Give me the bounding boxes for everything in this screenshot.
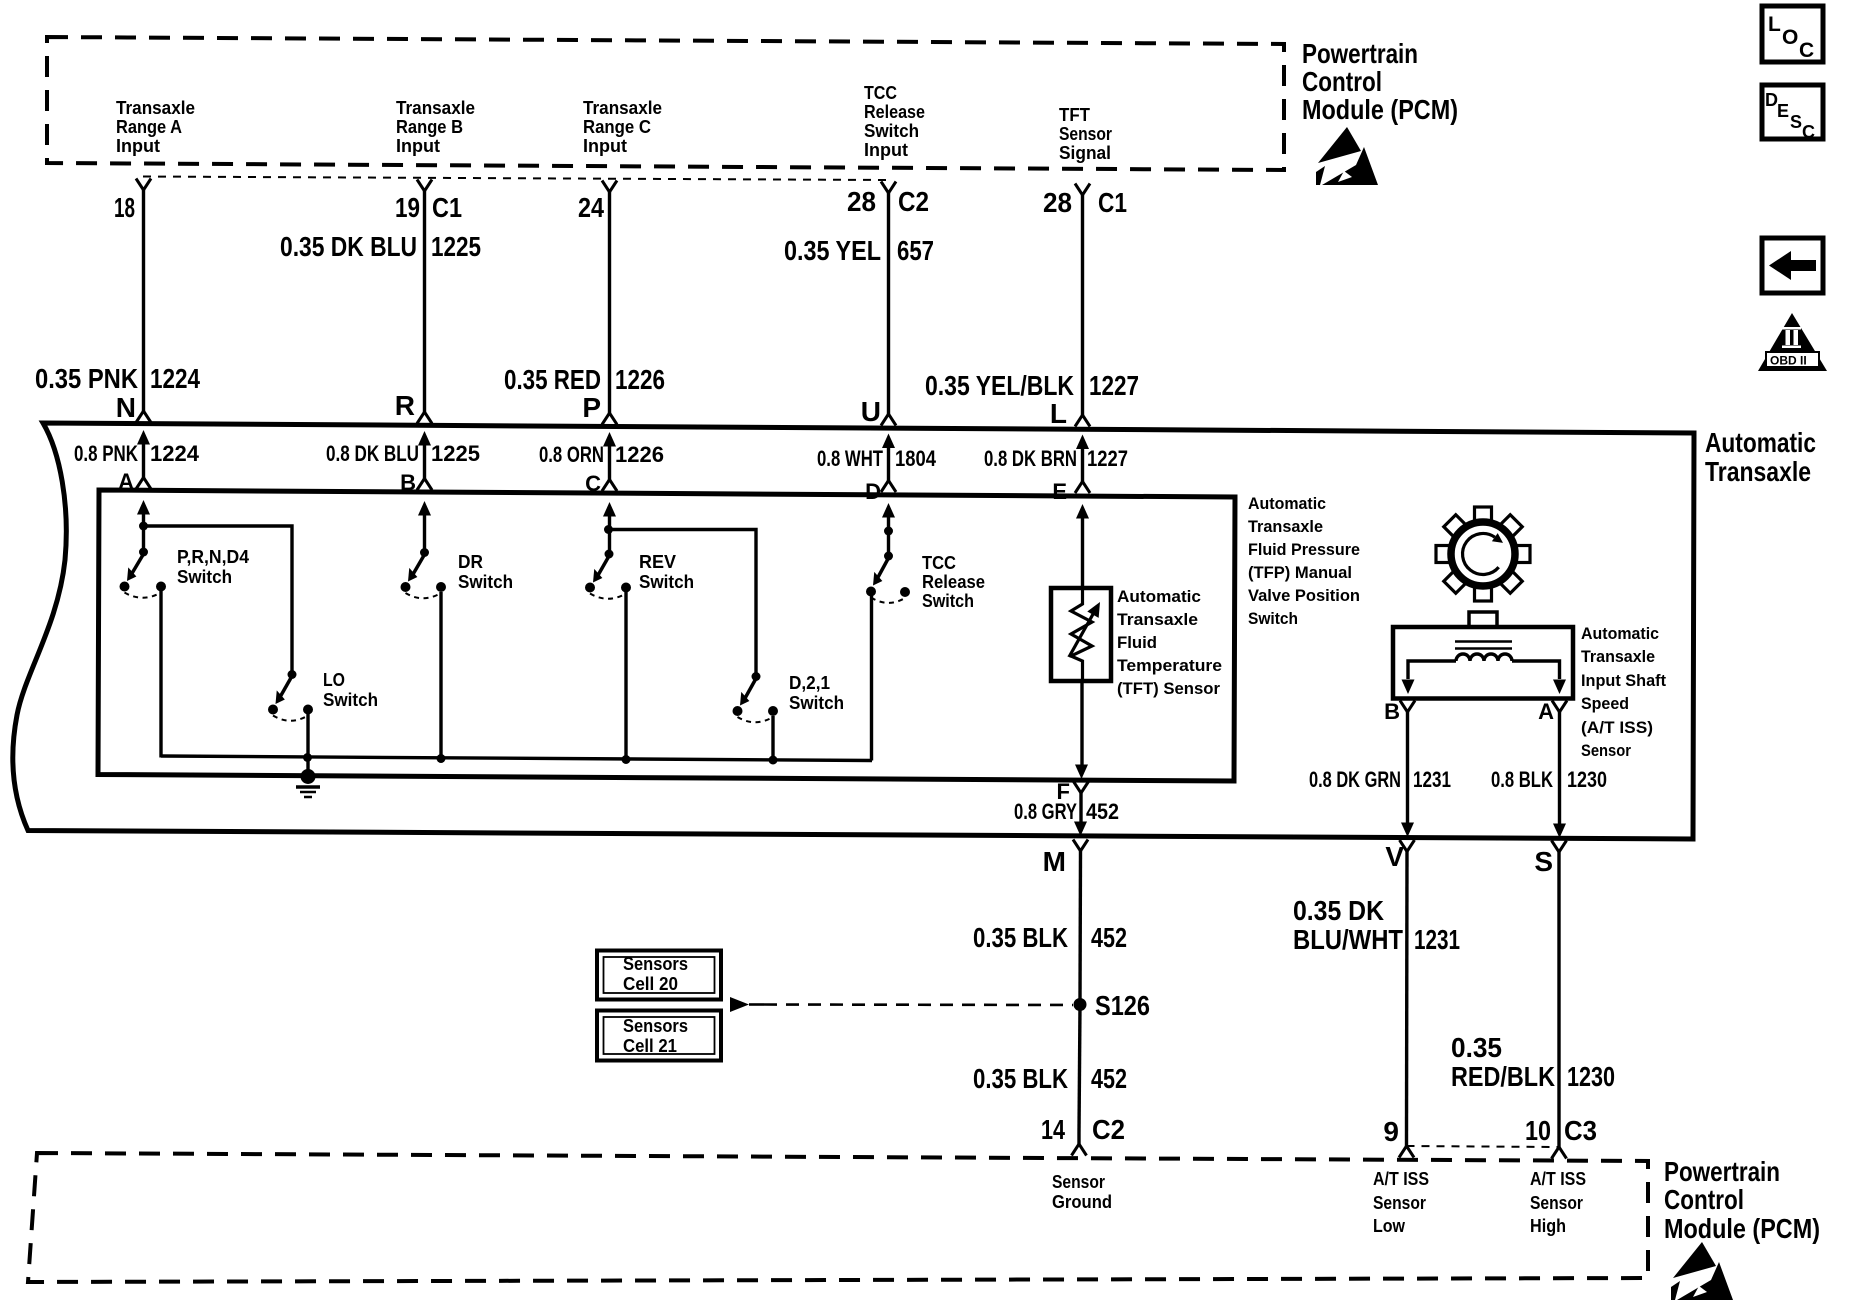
label 0.8 WHT 1804	[817, 446, 937, 471]
svg-text:0.35 PNK: 0.35 PNK	[35, 363, 138, 394]
label D,2,1 Switch	[789, 672, 844, 713]
label Automatic Transaxle Fluid Pressure (TFP) Manual Valve Position Switch	[1248, 494, 1360, 628]
switch D,2,1	[733, 672, 779, 722]
svg-text:1231: 1231	[1413, 767, 1451, 792]
pin 28 C2	[847, 182, 929, 218]
ESD symbol top	[1316, 127, 1378, 185]
box Sensors Cell 21	[597, 1011, 721, 1061]
pin R	[395, 390, 415, 421]
svg-text:0.8 WHT: 0.8 WHT	[817, 446, 883, 471]
wire P 0.35 RED 1226	[602, 192, 617, 425]
label REV Switch	[639, 551, 694, 592]
label Transaxle Range B Input	[396, 97, 475, 156]
svg-text:S: S	[1790, 112, 1802, 132]
wire B 0.8 DK GRN 1231	[1401, 712, 1414, 837]
svg-text:Switch: Switch	[458, 571, 513, 592]
svg-text:452: 452	[1091, 1063, 1127, 1094]
wire N 0.35 PNK 1224	[136, 190, 151, 423]
dashed reference line to S126	[730, 997, 1073, 1012]
svg-text:24: 24	[578, 192, 604, 223]
pin C	[585, 471, 601, 496]
wire LO to ground	[303, 714, 312, 774]
label TCC Release Switch	[922, 552, 985, 611]
pin V	[1385, 840, 1414, 872]
label 0.8 DK GRN 1231	[1309, 767, 1451, 792]
svg-text:Low: Low	[1373, 1215, 1406, 1236]
svg-text:Switch: Switch	[864, 120, 919, 141]
svg-text:0.8 DK BRN: 0.8 DK BRN	[984, 446, 1077, 471]
pin U	[861, 396, 881, 427]
label 0.35 DK BLU/WHT 1231	[1293, 895, 1460, 955]
svg-text:Control: Control	[1302, 66, 1382, 97]
label TCC Release Switch Input	[864, 82, 925, 160]
svg-text:452: 452	[1086, 799, 1119, 824]
wire A 0.8 PNK 1224	[136, 430, 151, 489]
TFP inner box	[98, 490, 1235, 781]
svg-text:Cell 21: Cell 21	[623, 1035, 677, 1056]
svg-text:1231: 1231	[1414, 924, 1460, 955]
svg-text:Automatic: Automatic	[1248, 494, 1326, 513]
pin D	[865, 479, 881, 504]
icon OBD II	[1758, 313, 1827, 371]
svg-text:Switch: Switch	[639, 571, 694, 592]
svg-text:Automatic: Automatic	[1581, 624, 1659, 643]
svg-text:Sensor: Sensor	[1059, 123, 1112, 144]
svg-text:Input: Input	[864, 139, 908, 160]
label LO Switch	[323, 669, 378, 710]
wire V 0.35 DK BLU/WHT 1231	[1399, 852, 1414, 1158]
PCM bottom dashed box	[28, 1153, 1648, 1282]
svg-text:Automatic: Automatic	[1117, 587, 1201, 606]
PCM top dashed box	[47, 37, 1284, 170]
TFT sensor R1	[1051, 588, 1111, 681]
svg-text:N: N	[116, 392, 136, 423]
wire M 0.35 BLK 452 lower	[1072, 1005, 1087, 1156]
svg-text:1230: 1230	[1567, 767, 1607, 792]
svg-text:P: P	[582, 392, 601, 423]
svg-text:Release: Release	[864, 101, 925, 122]
svg-text:DR: DR	[458, 551, 483, 572]
svg-text:9: 9	[1383, 1116, 1399, 1147]
svg-text:18: 18	[114, 192, 135, 223]
svg-text:0.8 PNK: 0.8 PNK	[74, 441, 138, 466]
svg-text:Switch: Switch	[922, 590, 974, 611]
svg-text:Valve Position: Valve Position	[1248, 586, 1360, 605]
icon back arrow	[1762, 238, 1823, 293]
svg-text:Sensors: Sensors	[623, 953, 688, 974]
svg-text:A/T ISS: A/T ISS	[1530, 1168, 1586, 1189]
label 0.8 ORN 1226	[539, 442, 664, 467]
svg-text:Transaxle: Transaxle	[396, 97, 475, 118]
pin P	[582, 392, 601, 423]
wire A 0.8 BLK 1230	[1553, 712, 1566, 838]
label Powertrain Control Module (PCM) bottom	[1664, 1156, 1820, 1244]
svg-text:Powertrain: Powertrain	[1302, 38, 1418, 69]
pin 10 C3	[1525, 1115, 1597, 1146]
svg-text:1230: 1230	[1567, 1061, 1615, 1092]
wire D 0.8 WHT 1804	[881, 434, 896, 493]
svg-text:BLU/WHT: BLU/WHT	[1293, 924, 1403, 955]
pin S	[1534, 841, 1566, 878]
svg-text:P,R,N,D4: P,R,N,D4	[177, 546, 250, 567]
svg-text:Release: Release	[922, 571, 985, 592]
svg-text:Sensor: Sensor	[1373, 1192, 1426, 1213]
pin 19 C1	[395, 180, 462, 224]
label 0.35 PNK 1224	[35, 363, 200, 394]
svg-text:E: E	[1052, 479, 1067, 504]
svg-text:1227: 1227	[1089, 370, 1139, 401]
svg-text:(TFP) Manual: (TFP) Manual	[1248, 563, 1352, 582]
svg-text:Input: Input	[116, 135, 160, 156]
pin B ISS	[1384, 699, 1415, 724]
svg-text:High: High	[1530, 1215, 1566, 1236]
label Automatic Transaxle Input Shaft Speed (A/T ISS) Sensor	[1581, 624, 1666, 760]
wire common ground bus	[161, 756, 872, 761]
wire REV to common	[622, 592, 631, 764]
svg-text:D,2,1: D,2,1	[789, 672, 830, 693]
svg-text:L: L	[1768, 13, 1781, 36]
svg-text:1224: 1224	[150, 441, 200, 466]
svg-text:Switch: Switch	[789, 692, 844, 713]
svg-text:0.8 GRY: 0.8 GRY	[1014, 799, 1077, 824]
wire P,R,N,D4 to common	[159, 591, 162, 758]
svg-text:C3: C3	[1564, 1115, 1597, 1146]
svg-text:Sensors: Sensors	[623, 1015, 688, 1036]
label Automatic Transaxle Fluid Temperature (TFT) Sensor	[1117, 587, 1222, 698]
label 0.35 BLK 452 upper	[973, 922, 1127, 953]
ground G	[296, 769, 320, 797]
label 0.8 DK BRN 1227	[984, 446, 1128, 471]
gear icon	[1436, 507, 1530, 601]
svg-text:RED/BLK: RED/BLK	[1451, 1061, 1555, 1092]
label 0.35 YEL/BLK 1227	[925, 370, 1139, 401]
wire F 0.8 GRY 452	[1074, 793, 1087, 836]
svg-text:Switch: Switch	[1248, 609, 1298, 628]
svg-text:Fluid: Fluid	[1117, 633, 1157, 652]
svg-text:O: O	[1782, 26, 1798, 49]
svg-text:(TFT) Sensor: (TFT) Sensor	[1117, 679, 1220, 698]
svg-text:1224: 1224	[150, 363, 200, 394]
svg-text:0.8 DK BLU: 0.8 DK BLU	[326, 441, 419, 466]
svg-text:C: C	[1799, 39, 1814, 62]
pin 24	[578, 181, 617, 224]
box Sensors Cell 20	[597, 951, 721, 1000]
label 0.35 DK BLU 1225	[280, 231, 481, 262]
wire S 0.35 RED/BLK 1230	[1552, 852, 1567, 1159]
wire DR to common	[437, 592, 446, 763]
svg-text:1227: 1227	[1087, 446, 1128, 471]
wire TFT to F	[1075, 681, 1088, 779]
svg-text:D: D	[865, 479, 881, 504]
svg-text:Range A: Range A	[116, 116, 182, 137]
svg-text:C2: C2	[1092, 1114, 1125, 1145]
svg-text:0.8 ORN: 0.8 ORN	[539, 442, 604, 467]
label Transaxle Range A Input	[116, 97, 195, 156]
label TFT Sensor Signal	[1059, 104, 1112, 163]
svg-text:0.8 BLK: 0.8 BLK	[1491, 767, 1553, 792]
icon DESC	[1762, 85, 1823, 142]
svg-text:0.8 DK GRN: 0.8 DK GRN	[1309, 767, 1401, 792]
icon LOC	[1762, 6, 1823, 62]
connector C1/C2 thin dashed line	[143, 177, 886, 181]
svg-text:U: U	[861, 396, 881, 427]
svg-text:(A/T ISS): (A/T ISS)	[1581, 718, 1653, 737]
svg-text:A/T ISS: A/T ISS	[1373, 1168, 1429, 1189]
label 0.35 YEL 657	[784, 235, 934, 266]
svg-text:Transaxle: Transaxle	[1117, 610, 1198, 629]
svg-text:Range C: Range C	[583, 116, 651, 137]
svg-text:Transaxle: Transaxle	[116, 97, 195, 118]
label 0.35 RED 1226	[504, 364, 665, 395]
svg-text:OBD II: OBD II	[1770, 354, 1807, 368]
svg-text:B: B	[1384, 699, 1400, 724]
svg-text:REV: REV	[639, 551, 677, 572]
wire D,2,1 to common	[769, 716, 778, 765]
switch TCC Release	[866, 503, 910, 603]
Automatic Transaxle outer box	[13, 423, 1694, 839]
svg-text:C1: C1	[432, 192, 462, 223]
svg-text:657: 657	[897, 235, 934, 266]
wire branch A to LO	[144, 526, 293, 671]
svg-text:C2: C2	[898, 186, 929, 217]
svg-text:Transaxle: Transaxle	[583, 97, 662, 118]
svg-text:28: 28	[1043, 187, 1072, 218]
svg-text:1226: 1226	[615, 442, 664, 467]
label A/T ISS Sensor High	[1530, 1168, 1586, 1236]
svg-text:452: 452	[1091, 922, 1127, 953]
svg-text:1804: 1804	[895, 446, 937, 471]
pin A ISS	[1538, 699, 1567, 724]
pin M	[1043, 840, 1088, 878]
pin L	[1050, 398, 1067, 429]
svg-text:Range B: Range B	[396, 116, 463, 137]
svg-text:14: 14	[1041, 1114, 1065, 1145]
svg-text:0.35 DK BLU: 0.35 DK BLU	[280, 231, 417, 262]
svg-text:L: L	[1050, 398, 1067, 429]
label 0.8 DK BLU 1225	[326, 441, 480, 466]
svg-text:Module (PCM): Module (PCM)	[1302, 94, 1458, 125]
wire B 0.8 DK BLU 1225	[417, 431, 432, 490]
svg-text:Input: Input	[396, 135, 440, 156]
svg-text:C: C	[585, 471, 601, 496]
label P,R,N,D4 Switch	[177, 546, 250, 587]
svg-text:Switch: Switch	[177, 566, 232, 587]
svg-text:Module (PCM): Module (PCM)	[1664, 1213, 1820, 1244]
svg-text:Transaxle: Transaxle	[1248, 517, 1323, 536]
svg-text:E: E	[1777, 101, 1789, 121]
svg-text:LO: LO	[323, 669, 345, 690]
svg-text:Automatic: Automatic	[1705, 427, 1816, 458]
svg-text:0.35 RED: 0.35 RED	[504, 364, 601, 395]
switch REV	[585, 502, 631, 599]
svg-text:1226: 1226	[615, 364, 665, 395]
A/T ISS sensor body	[1393, 612, 1573, 699]
label Sensor Ground	[1052, 1171, 1112, 1212]
svg-text:Control: Control	[1664, 1184, 1744, 1215]
svg-text:Fluid Pressure: Fluid Pressure	[1248, 540, 1360, 559]
ESD symbol bottom	[1671, 1242, 1733, 1300]
label Automatic Transaxle	[1705, 427, 1816, 487]
svg-text:S: S	[1534, 846, 1553, 877]
svg-text:1225: 1225	[431, 231, 481, 262]
svg-text:Speed: Speed	[1581, 694, 1629, 713]
switch LO	[268, 670, 313, 721]
svg-text:19: 19	[395, 192, 420, 223]
svg-text:M: M	[1043, 846, 1066, 877]
label Powertrain Control Module (PCM) top	[1302, 38, 1458, 125]
svg-text:TFT: TFT	[1059, 104, 1091, 125]
pin F	[1057, 779, 1089, 804]
svg-text:Temperature: Temperature	[1117, 656, 1222, 675]
pin N	[116, 392, 136, 423]
svg-text:Input: Input	[583, 135, 627, 156]
svg-text:0.35 BLK: 0.35 BLK	[973, 922, 1068, 953]
svg-text:Powertrain: Powertrain	[1664, 1156, 1780, 1187]
label 0.35 BLK 452 lower	[973, 1063, 1127, 1094]
svg-text:0.35 DK: 0.35 DK	[1293, 895, 1384, 926]
wire M 0.35 BLK 452 upper	[1078, 851, 1082, 1000]
wire L 0.35 YEL/BLK 1227	[1075, 195, 1090, 427]
pin A	[118, 469, 134, 494]
switch DR	[401, 501, 447, 598]
switch P,R,N,D4	[120, 500, 167, 598]
svg-text:0.35: 0.35	[1451, 1032, 1502, 1063]
svg-text:B: B	[400, 470, 416, 495]
wire branch C to D,2,1	[609, 530, 757, 674]
svg-text:28: 28	[847, 186, 876, 217]
svg-text:Sensor: Sensor	[1052, 1171, 1105, 1192]
svg-text:Signal: Signal	[1059, 142, 1111, 163]
connector C3 thin dashed line	[1407, 1146, 1560, 1147]
svg-text:TCC: TCC	[922, 552, 956, 573]
pin 9	[1383, 1116, 1399, 1147]
svg-text:Input Shaft: Input Shaft	[1581, 671, 1666, 690]
pin B	[400, 470, 416, 495]
label Transaxle Range C Input	[583, 97, 662, 156]
wire TCC to common	[870, 596, 873, 761]
label 0.8 GRY 452	[1014, 799, 1119, 824]
svg-text:10: 10	[1525, 1115, 1551, 1146]
svg-text:A: A	[118, 469, 134, 494]
wire E to TFT sensor	[1076, 504, 1089, 590]
svg-text:Ground: Ground	[1052, 1191, 1112, 1212]
svg-text:Switch: Switch	[323, 689, 378, 710]
label A/T ISS Sensor Low	[1373, 1168, 1429, 1236]
label 0.8 BLK 1230	[1491, 767, 1607, 792]
svg-text:TCC: TCC	[864, 82, 897, 103]
svg-text:R: R	[395, 390, 415, 421]
label 0.8 PNK 1224	[74, 441, 200, 466]
svg-text:0.35 YEL/BLK: 0.35 YEL/BLK	[925, 370, 1074, 401]
label DR Switch	[458, 551, 513, 592]
wire C 0.8 ORN 1226	[602, 432, 617, 491]
label 0.35 RED/BLK 1230	[1451, 1032, 1615, 1092]
svg-text:0.35 YEL: 0.35 YEL	[784, 235, 881, 266]
svg-text:0.35 BLK: 0.35 BLK	[973, 1063, 1068, 1094]
svg-text:C: C	[1802, 122, 1815, 142]
svg-text:C1: C1	[1098, 187, 1127, 218]
svg-text:Cell 20: Cell 20	[623, 973, 678, 994]
pin 18	[114, 179, 151, 224]
svg-text:Transaxle: Transaxle	[1705, 456, 1811, 487]
pin E	[1052, 479, 1067, 504]
svg-text:1225: 1225	[431, 441, 480, 466]
pin 14 C2	[1041, 1114, 1125, 1145]
pin 28 C1	[1043, 184, 1127, 219]
svg-text:S126: S126	[1095, 990, 1150, 1021]
splice S126	[1074, 990, 1151, 1021]
svg-text:Sensor: Sensor	[1581, 741, 1631, 760]
wire R 0.35 DK BLU 1225	[417, 191, 432, 424]
wire E 0.8 DK BRN 1227	[1075, 435, 1090, 494]
svg-text:Transaxle: Transaxle	[1581, 647, 1655, 666]
wire U 0.35 YEL 657	[881, 193, 896, 426]
svg-text:Sensor: Sensor	[1530, 1192, 1583, 1213]
